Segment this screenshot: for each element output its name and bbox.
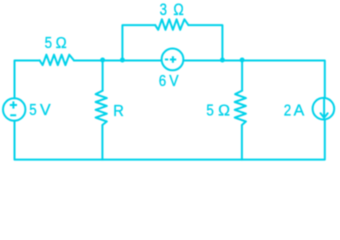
svg-text:2: 2: [284, 102, 291, 119]
svg-text:5: 5: [45, 35, 52, 52]
svg-text:Ω: Ω: [218, 102, 230, 119]
svg-text:V: V: [169, 72, 178, 90]
svg-text:6: 6: [159, 73, 166, 90]
svg-text:5: 5: [29, 102, 36, 119]
svg-text:A: A: [294, 102, 305, 119]
svg-text:Ω: Ω: [56, 35, 67, 53]
svg-text:Ω: Ω: [173, 1, 183, 20]
svg-text:3: 3: [160, 1, 167, 20]
svg-text:R: R: [113, 103, 124, 121]
svg-text:V: V: [40, 102, 51, 119]
svg-text:5: 5: [206, 102, 213, 119]
